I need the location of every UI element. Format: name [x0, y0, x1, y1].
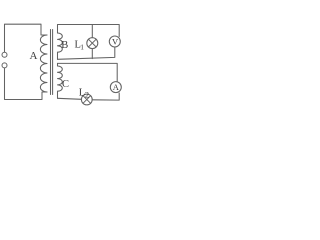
wire: bottom loop top wire and right vertical to ammeter: [58, 63, 118, 81]
voltmeter V: [109, 36, 120, 47]
lamp L1: [87, 38, 98, 49]
wire: bottom loop bottom wire (left of lamp L2): [58, 98, 82, 99]
wire: bottom loop bottom wire (right of lamp L2) and up to ammeter: [92, 93, 119, 100]
transformer secondary winding B: [58, 33, 63, 59]
transformer core line 2: [52, 30, 54, 95]
transformer primary winding A: [40, 35, 47, 92]
svg-text:A: A: [30, 50, 38, 62]
svg-text:A: A: [113, 82, 120, 92]
lamp L1 branch wire bottom: [91, 49, 93, 59]
svg-text:B: B: [61, 40, 68, 51]
wire: left loop top (left vertical down to terminal, top wire, down, to coil): [5, 24, 48, 52]
svg-text:C: C: [62, 79, 69, 90]
terminal (bottom plug circle): [2, 63, 7, 68]
wire: top loop bottom wire: [58, 47, 115, 59]
wire: left loop bottom (terminal down, bottom wire, up to coil bottom): [5, 68, 48, 99]
svg-text:1: 1: [80, 43, 84, 52]
terminal (top plug circle): [2, 52, 7, 57]
transformer core line 1: [50, 30, 52, 95]
svg-text:V: V: [112, 37, 119, 47]
wire: top loop (B top up, top wire right, down right edge to voltmeter): [58, 25, 120, 37]
ammeter A: [110, 82, 121, 93]
lamp L2: [81, 94, 92, 105]
transformer secondary winding C: [58, 63, 63, 98]
lamp L1 branch wire top: [91, 25, 93, 38]
svg-text:2: 2: [85, 91, 89, 100]
